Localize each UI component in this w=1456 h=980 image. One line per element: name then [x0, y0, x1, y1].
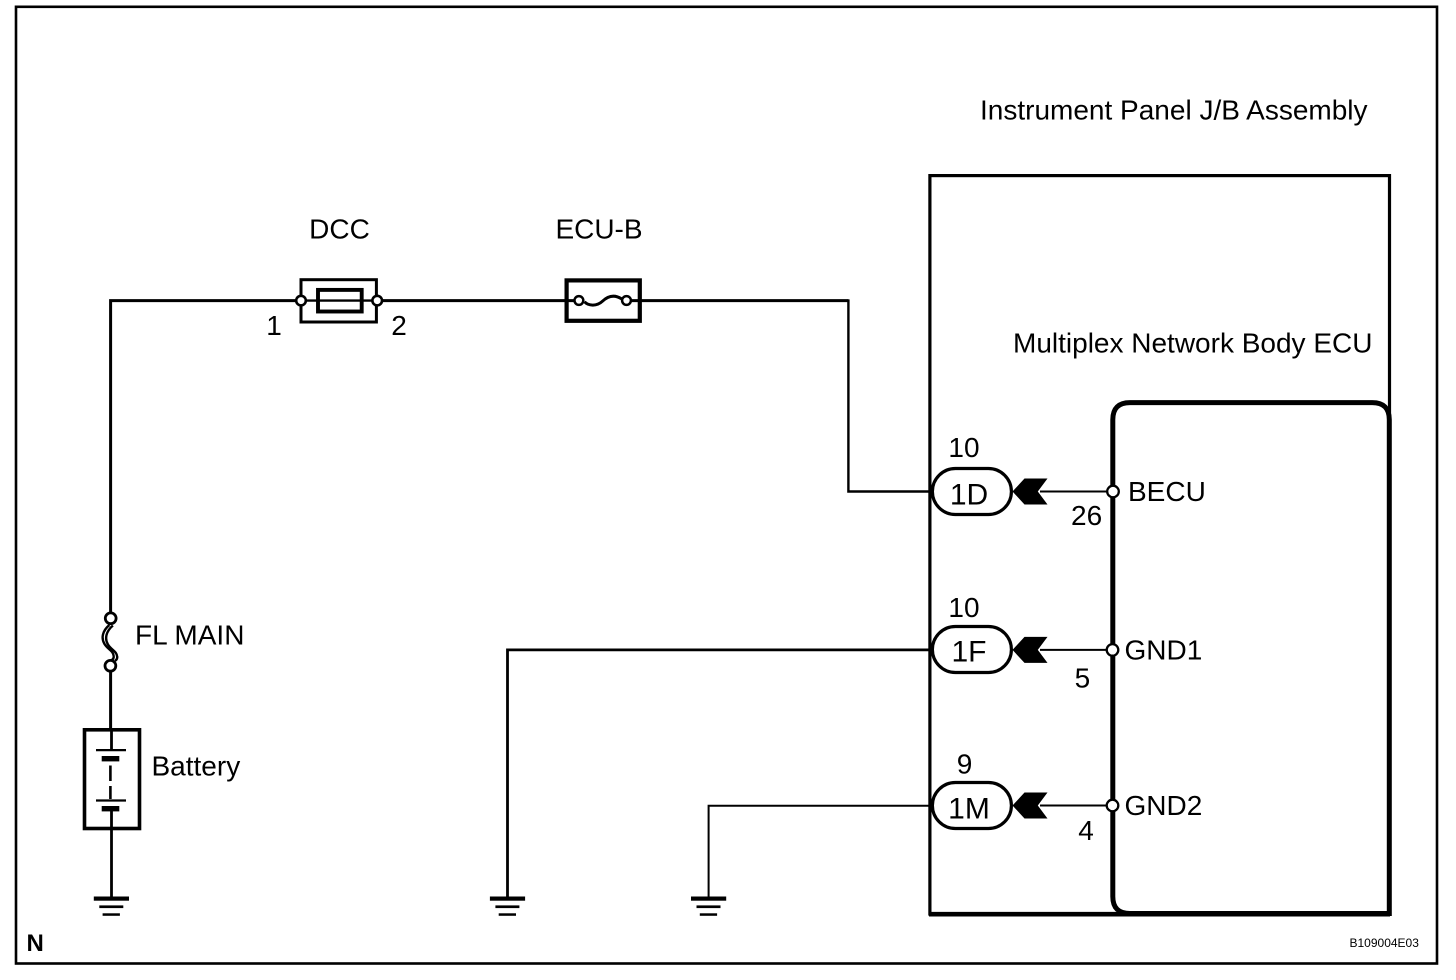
svg-text:Battery: Battery [152, 751, 241, 782]
ground GND1 [490, 897, 525, 916]
svg-text:DCC: DCC [309, 214, 370, 245]
svg-text:5: 5 [1075, 663, 1091, 694]
connector 1F [932, 627, 1011, 673]
svg-text:Multiplex Network Body ECU: Multiplex Network Body ECU [1013, 327, 1372, 358]
pin GND1 5 [1107, 644, 1119, 656]
connector 1D [932, 469, 1011, 515]
connector 1M [932, 783, 1011, 829]
svg-text:B109004E03: B109004E03 [1350, 936, 1420, 950]
junction block box Instrument Panel J/B Assembly [929, 176, 1390, 915]
connector arrow at 1F [1013, 637, 1048, 663]
svg-text:GND1: GND1 [1125, 635, 1203, 666]
svg-text:10: 10 [948, 432, 979, 463]
svg-text:2: 2 [391, 310, 407, 341]
wire arrow to pin BECU [1040, 491, 1113, 493]
wire GND1 to ground [508, 650, 934, 898]
svg-text:26: 26 [1071, 500, 1102, 531]
svg-text:1M: 1M [948, 792, 990, 825]
svg-text:10: 10 [948, 592, 979, 623]
svg-text:Instrument Panel J/B Assembly: Instrument Panel J/B Assembly [980, 95, 1368, 126]
wire arrow to pin GND2 [1040, 805, 1113, 807]
pin GND2 4 [1107, 800, 1119, 812]
wire GND2 to ground [709, 806, 933, 898]
connector arrow at 1M [1013, 793, 1048, 819]
fuse DCC [296, 280, 382, 322]
svg-text:GND2: GND2 [1125, 790, 1203, 821]
ground GND2 [691, 897, 726, 916]
fusible link FL MAIN [103, 613, 118, 671]
svg-text:N: N [27, 930, 44, 957]
svg-text:FL MAIN: FL MAIN [135, 620, 244, 651]
ECU box Multiplex Network Body ECU [1113, 403, 1390, 914]
pin BECU 26 [1107, 486, 1119, 498]
wire DCC internal [301, 299, 377, 301]
svg-text:1: 1 [266, 310, 282, 341]
svg-text:BECU: BECU [1128, 476, 1206, 507]
svg-text:4: 4 [1078, 815, 1094, 846]
svg-text:1F: 1F [951, 635, 986, 668]
fuse ECU-B [567, 280, 640, 320]
wire battery top stub [109, 666, 112, 729]
ground battery [94, 897, 129, 916]
wire DCC to ECU-B [377, 299, 579, 302]
connector arrow at 1D [1013, 479, 1048, 505]
wire battery to ground [110, 828, 113, 898]
wire battery to DCC (vertical riser and top horizontal) [111, 301, 302, 618]
wire ECU-B to corner [627, 299, 848, 302]
svg-text:ECU-B: ECU-B [555, 214, 642, 245]
svg-text:9: 9 [957, 749, 973, 780]
svg-text:1D: 1D [950, 478, 988, 511]
wire corner to connector 1D [848, 299, 933, 491]
wire arrow to pin GND1 [1040, 649, 1113, 651]
battery [85, 730, 140, 829]
